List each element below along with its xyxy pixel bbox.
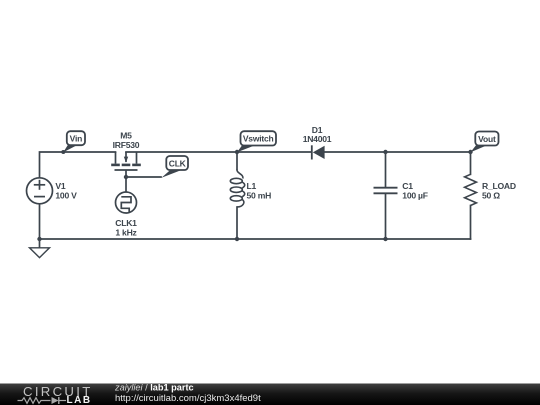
node inductor bottom junction	[235, 237, 239, 241]
flag Vswitch	[237, 131, 276, 152]
svg-text:CLK1: CLK1	[115, 218, 137, 228]
wire top rail left (Vin to M5 drain)	[40, 152, 116, 178]
diode D1 1N4001	[312, 145, 325, 159]
node Vswitch junction	[235, 150, 239, 154]
node junction dots	[37, 150, 472, 241]
clock source CLK1	[116, 192, 137, 213]
ground	[30, 248, 50, 258]
svg-text:Vswitch: Vswitch	[243, 134, 274, 144]
wire CLK net	[126, 176, 161, 178]
resistor R_LOAD	[465, 174, 477, 205]
svg-text:LAB: LAB	[67, 395, 92, 405]
inductor L1	[230, 169, 244, 207]
wire top rail right (diode anode to Vout corner)	[325, 151, 471, 153]
wire ground stub	[39, 239, 41, 248]
svg-text:http://circuitlab.com/cj3km3x4: http://circuitlab.com/cj3km3x4fed9t	[115, 393, 261, 404]
svg-text:100 µF: 100 µF	[402, 190, 427, 200]
transistor Q M5 IRF530	[111, 152, 141, 170]
node Vin attach	[61, 150, 65, 154]
wire V1 bottom lead	[39, 204, 41, 239]
svg-text:IRF530: IRF530	[113, 140, 140, 150]
node gate CLK junction	[124, 175, 128, 179]
node capacitor bottom junction	[383, 237, 387, 241]
wire resistor top lead	[470, 152, 472, 174]
wire inductor bottom lead	[236, 207, 238, 239]
logo resistor squiggle	[18, 398, 51, 404]
capacitor C1	[374, 188, 398, 194]
svg-text:Vout: Vout	[478, 134, 496, 144]
flag CLK	[162, 156, 189, 178]
svg-text:zaiyliei / lab1 partc: zaiyliei / lab1 partc	[114, 383, 194, 393]
wire inductor top lead	[236, 152, 238, 169]
footer bar	[0, 384, 540, 405]
wire bottom rail	[40, 238, 471, 240]
flag Vout	[471, 132, 499, 153]
wire M5 gate lead to CLK1	[125, 171, 127, 193]
svg-text:Vin: Vin	[70, 134, 82, 144]
node capacitor top junction	[383, 150, 387, 154]
voltage source V1	[27, 178, 53, 204]
wire top rail middle (M5 source to diode cathode)	[126, 151, 312, 153]
svg-text:50 mH: 50 mH	[247, 190, 272, 200]
node Vout junction	[468, 150, 472, 154]
node V1 ground junction	[37, 237, 41, 241]
wire capacitor bottom lead	[385, 194, 387, 239]
logo diode	[52, 397, 67, 404]
svg-text:1N4001: 1N4001	[303, 134, 332, 144]
flag Vin	[63, 131, 85, 152]
svg-text:1 kHz: 1 kHz	[115, 228, 136, 238]
wire resistor bottom lead	[470, 206, 472, 240]
svg-text:100 V: 100 V	[55, 190, 77, 200]
svg-text:50 Ω: 50 Ω	[482, 190, 500, 200]
wire capacitor top lead	[385, 152, 387, 187]
svg-text:CLK: CLK	[169, 158, 187, 168]
